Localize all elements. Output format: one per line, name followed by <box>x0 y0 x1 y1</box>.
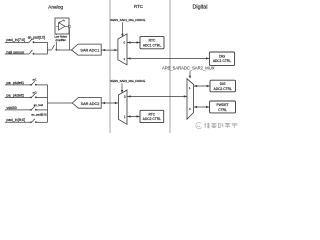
switch m2 <box>31 94 37 98</box>
wire SAR ADC1 to mux (bidirectional) <box>101 49 118 51</box>
svg-text:an_pad[1:0]: an_pad[1:0] <box>28 36 46 40</box>
wire pad_in row <box>5 41 29 43</box>
svg-text:an_pad[9:0]: an_pad[9:0] <box>31 113 46 117</box>
watermark text (stylized glyph blobs) <box>204 123 237 128</box>
svg-text:CTRL: CTRL <box>218 108 227 112</box>
section separator RTC/Digital <box>169 0 171 133</box>
switch LNA bypass on wire <box>52 45 57 50</box>
op-amp triangle <box>59 23 66 30</box>
wire bus2 to SAR ADC2 <box>48 102 73 104</box>
wire bus joining pad_in and hall rows <box>47 42 49 54</box>
svg-text:m1: m1 <box>33 78 37 82</box>
svg-text:m2: m2 <box>33 90 37 94</box>
port bump on LNA output <box>68 25 70 27</box>
char 5 <box>232 123 238 128</box>
svg-text:ADC2 CTRL: ADC2 CTRL <box>214 87 232 91</box>
wire select mux2 <box>121 83 123 90</box>
svg-text:Digital: Digital <box>193 5 208 11</box>
wire mux2 port0 to digital mux (bidirectional) <box>127 95 187 97</box>
wire op-amp output <box>65 25 68 27</box>
svg-text:ADC1 CTRL: ADC1 CTRL <box>143 43 161 47</box>
wire select mux1 <box>121 22 123 34</box>
wire pad_in to bus <box>34 41 48 43</box>
switch an_pad[9:0] <box>31 119 37 123</box>
switch m1 <box>31 81 37 85</box>
svg-text:pa_pkdet1: pa_pkdet1 <box>6 81 24 85</box>
wire vdd33 row <box>5 109 31 111</box>
svg-text:APB_SARADC_SAR2_MUX: APB_SARADC_SAR2_MUX <box>162 65 215 70</box>
wire pa_pkdet2 row <box>5 97 31 99</box>
wire mux2 port1 to RTC ADC2 CTRL (bidirectional) <box>127 115 140 117</box>
char 3 <box>218 123 223 128</box>
wire hall to bus <box>34 53 48 55</box>
svg-text:an_test: an_test <box>34 103 44 107</box>
svg-text:1: 1 <box>124 115 126 119</box>
wire pa_pkdet1 row <box>5 84 31 86</box>
label Low Noise Amplifier <box>54 35 66 42</box>
wire select mux3 <box>189 71 191 76</box>
svg-text:Analog: Analog <box>48 5 63 11</box>
switch an_test <box>31 106 37 110</box>
block PWDET CTRL <box>210 101 236 113</box>
svg-text:ADC1 CTRL: ADC1 CTRL <box>213 59 231 63</box>
amplifier U1 box (Low Noise Amplifier) <box>55 18 69 34</box>
adc SAR ADC1 pentagon <box>71 44 101 55</box>
block RTC ADC1 CTRL <box>140 37 164 49</box>
svg-text:0: 0 <box>124 95 126 99</box>
section separator Analog/RTC <box>109 0 111 133</box>
svg-text:Amplifier: Amplifier <box>55 38 66 42</box>
switch hall sensor <box>29 50 34 54</box>
wire mux1 port0 to RTC ADC1 CTRL (bidirectional) <box>127 42 140 44</box>
wire stub LNA output <box>68 28 70 50</box>
watermark logo <box>196 123 202 129</box>
svg-text:SAR ADC1: SAR ADC1 <box>80 49 99 53</box>
svg-text:ADC2 CTRL: ADC2 CTRL <box>143 117 161 121</box>
block DIG ADC2 CTRL <box>210 80 236 92</box>
wire mux3 to DIG ADC2 CTRL (bidirectional) <box>194 85 210 87</box>
char 1 <box>204 123 210 128</box>
adc SAR ADC2 pentagon <box>72 98 101 109</box>
wire mux1 port1 to DIG ADC1 CTRL (bidirectional) <box>127 57 209 59</box>
mux M3 (digital SAR2 mux) <box>187 79 194 119</box>
wire mid line to SAR ADC1 <box>48 49 52 51</box>
svg-text:SENS_SAR1_DIG_FORCE: SENS_SAR1_DIG_FORCE <box>110 18 145 22</box>
wire mux3 to PWDET CTRL (bidirectional) <box>194 106 210 108</box>
char 4 <box>225 123 231 128</box>
svg-text:SENS_SAR2_DIG_FORCE: SENS_SAR2_DIG_FORCE <box>110 79 145 83</box>
block DIG ADC1 CTRL <box>209 52 234 65</box>
svg-text:pad_in[7:0]: pad_in[7:0] <box>6 38 25 42</box>
wire pad_in[9:0] row <box>5 121 31 123</box>
svg-text:RTC: RTC <box>134 4 143 9</box>
mux M2 (RTC ADC2) <box>118 90 127 124</box>
svg-text:DIG: DIG <box>219 54 225 58</box>
char 2 <box>211 123 216 128</box>
wire op-amp input <box>56 25 58 27</box>
wire hall sensor row <box>5 53 29 55</box>
switch op-amp internal bypass <box>59 20 64 23</box>
block RTC ADC2 CTRL <box>140 110 164 122</box>
svg-text:RTC: RTC <box>149 39 156 43</box>
svg-text:PWDET: PWDET <box>217 103 229 107</box>
svg-text:pa_pkdet2: pa_pkdet2 <box>6 93 24 97</box>
wire SAR ADC2 to mux2 (bidirectional) <box>101 102 118 104</box>
svg-text:DIG: DIG <box>220 82 226 86</box>
switch an_pad[1:0] <box>29 38 34 42</box>
wire stub LNA input <box>55 34 57 50</box>
svg-text:RTC: RTC <box>148 112 155 116</box>
svg-text:SAR ADC2: SAR ADC2 <box>81 102 100 106</box>
wire bus2 joining bottom rows <box>47 85 49 122</box>
mux M1 (RTC ADC1) <box>118 34 127 65</box>
svg-text:pad_in[9:0]: pad_in[9:0] <box>6 118 25 122</box>
